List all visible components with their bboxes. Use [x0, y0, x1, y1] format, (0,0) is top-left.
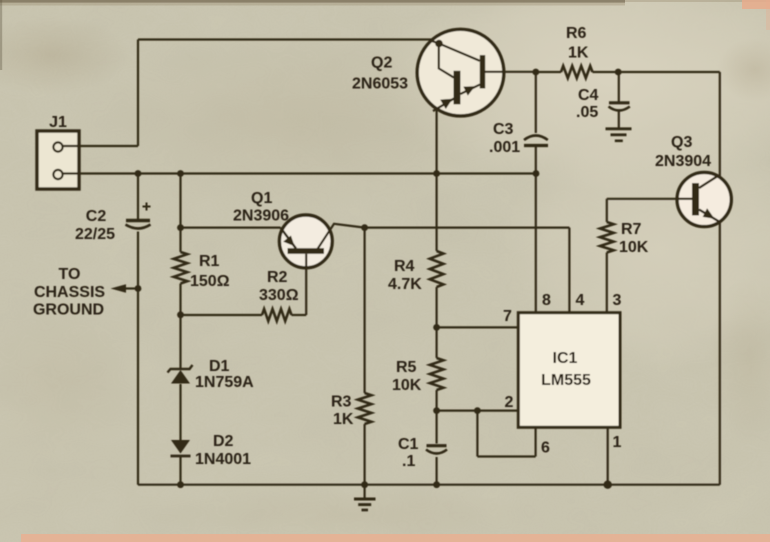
svg-text:J1: J1	[49, 114, 67, 131]
wire R3 branch	[364, 228, 366, 393]
svg-text:2: 2	[505, 394, 514, 411]
connector J1	[37, 131, 79, 189]
svg-text:Q2: Q2	[371, 55, 392, 72]
resistor R7 10K	[600, 222, 614, 253]
pink scan areas	[742, 0, 770, 9]
wire Q2 emitter down to rail	[436, 111, 438, 174]
resistor R4 4.7K	[430, 251, 444, 287]
node pin1 / bottom rail	[604, 481, 612, 489]
svg-text:Q3: Q3	[671, 134, 692, 151]
node Q2 collector / C3 / R6	[532, 69, 539, 76]
node R3 / bottom rail	[361, 481, 368, 488]
wire Q3 emitter down	[719, 223, 721, 485]
wire R6 to Q3 collector rail	[618, 71, 720, 73]
svg-text:7: 7	[503, 308, 512, 325]
transistor Q2 2N6053	[417, 29, 504, 116]
svg-text:IC1: IC1	[553, 350, 578, 367]
node R6 / C4	[615, 69, 622, 76]
node junction Q2 emitter/rail	[433, 170, 440, 177]
svg-text:.001: .001	[489, 139, 520, 156]
svg-text:Q1: Q1	[251, 190, 272, 207]
svg-text:R1: R1	[199, 253, 220, 270]
node C1/bottom rail	[433, 481, 440, 488]
node junction R1/rail	[177, 170, 184, 177]
capacitor C1 .1	[427, 444, 447, 447]
svg-text:8: 8	[542, 292, 551, 309]
wire R4 R5 C1 branch	[436, 174, 438, 252]
svg-text:R7: R7	[621, 221, 642, 238]
svg-text:1: 1	[613, 434, 622, 451]
svg-text:330Ω: 330Ω	[259, 287, 299, 304]
wire IC1 pin 2	[437, 410, 519, 412]
svg-text:3: 3	[613, 292, 622, 309]
wire R2 to R1 branch	[181, 314, 263, 316]
svg-text:6: 6	[541, 440, 550, 457]
node D2 / bottom rail	[177, 481, 184, 488]
transistor Q1 2N3906	[279, 215, 332, 268]
svg-text:D1: D1	[209, 358, 230, 375]
wire C3 / pin 8 branch	[535, 72, 537, 133]
transistor Q3 2N3904	[677, 172, 731, 226]
wire IC1 pin 1	[607, 427, 609, 484]
wire R1/D1/D2 branch	[179, 174, 181, 253]
svg-text:D2: D2	[213, 433, 234, 450]
top dark edge	[0, 0, 625, 3]
svg-text:1N4001: 1N4001	[195, 451, 251, 468]
svg-text:4: 4	[576, 292, 585, 309]
capacitor C4 .05	[618, 72, 620, 102]
svg-text:.1: .1	[402, 453, 415, 470]
wire bottom ground rail	[138, 484, 720, 486]
node R1 top / Q1 emitter wire	[177, 224, 184, 231]
wire Q1 collector to IC1 pin 4	[365, 227, 570, 229]
svg-text:1K: 1K	[568, 45, 589, 62]
svg-text:10K: 10K	[392, 377, 422, 394]
svg-text:.05: .05	[576, 104, 598, 121]
wire C2 branch down to bottom rail	[137, 174, 139, 220]
wire Q3 base	[607, 198, 677, 200]
svg-text:C4: C4	[578, 87, 599, 104]
svg-text:GROUND: GROUND	[33, 302, 104, 319]
svg-text:1N759A: 1N759A	[195, 374, 254, 391]
node junction C2/rail	[135, 170, 142, 177]
svg-text:22/25: 22/25	[75, 226, 115, 243]
resistor R6 1K	[536, 71, 561, 73]
svg-text:10K: 10K	[619, 239, 649, 256]
node Q1 collector / R3	[361, 224, 368, 231]
svg-text:R2: R2	[267, 269, 288, 286]
zener diode D1 1N759A	[171, 370, 190, 384]
capacitor C3 .001	[524, 136, 548, 141]
svg-text:C3: C3	[493, 121, 514, 138]
node R1 bottom / R2 wire	[177, 311, 184, 318]
svg-text:R4: R4	[394, 258, 415, 275]
wire IC1 pin 6 loop	[476, 411, 478, 457]
node R4/pin7	[433, 324, 440, 331]
resistor R2 330ohm	[262, 309, 292, 321]
svg-text:2N3904: 2N3904	[655, 153, 711, 170]
node pin2/pin6	[474, 407, 481, 414]
resistor R1 150ohm	[174, 252, 188, 284]
wire top rail to Q2	[138, 38, 436, 40]
svg-text:C1: C1	[398, 436, 419, 453]
node chassis tap on C2 branch	[135, 285, 142, 292]
diode D2 1N4001	[171, 440, 190, 454]
wire IC1 pin 7	[437, 326, 519, 328]
svg-text:R6: R6	[566, 25, 587, 42]
ground symbol below C4	[606, 127, 632, 130]
wire main supply rail from J1 pin 2	[63, 172, 536, 174]
resistor R5 10K	[430, 358, 444, 390]
ground symbol	[364, 485, 366, 499]
wire to chassis ground arrow	[122, 287, 138, 289]
node junction C3-pin8/rail	[533, 170, 540, 177]
wire from J1 pin 1 up to V+ top rail	[63, 145, 138, 147]
svg-text:LM555: LM555	[541, 372, 591, 389]
op-amp/timer IC1 LM555	[518, 313, 620, 428]
node Q2 input	[435, 40, 443, 48]
svg-text:1K: 1K	[333, 411, 354, 428]
svg-text:150Ω: 150Ω	[190, 273, 230, 290]
svg-text:CHASSIS: CHASSIS	[34, 284, 105, 301]
resistor R3 1K	[358, 393, 372, 424]
svg-text:R5: R5	[396, 359, 417, 376]
svg-text:TO: TO	[59, 266, 81, 283]
node R5/pin2	[433, 407, 440, 414]
wire Q1 emitter	[181, 227, 281, 229]
wire Q1 base	[305, 254, 307, 315]
svg-text:2N3906: 2N3906	[233, 208, 289, 225]
svg-text:2N6053: 2N6053	[352, 76, 408, 93]
svg-text:4.7K: 4.7K	[388, 276, 422, 293]
svg-text:C2: C2	[86, 208, 107, 225]
svg-text:R3: R3	[331, 394, 352, 411]
capacitor C2 22/25 polarized	[126, 219, 150, 222]
